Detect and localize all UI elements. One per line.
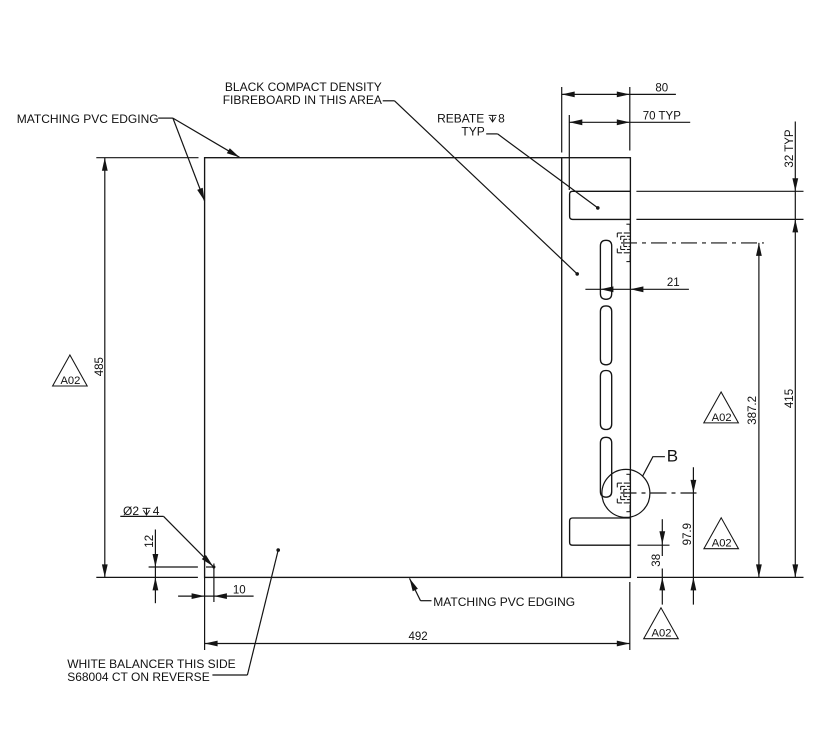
svg-text:12: 12 [144,535,156,548]
svg-text:415: 415 [784,389,796,408]
svg-text:MATCHING PVC EDGING: MATCHING PVC EDGING [17,112,159,126]
svg-text:387.2: 387.2 [747,396,759,425]
svg-text:A02: A02 [712,538,732,550]
svg-text:MATCHING PVC EDGING: MATCHING PVC EDGING [433,595,575,609]
svg-text:38: 38 [651,554,663,567]
svg-text:S68004 CT ON REVERSE: S68004 CT ON REVERSE [67,670,210,684]
svg-text:WHITE BALANCER THIS SIDE: WHITE BALANCER THIS SIDE [67,657,235,671]
svg-text:80: 80 [655,83,668,95]
svg-text:4: 4 [153,504,160,518]
svg-text:Ø2: Ø2 [123,504,139,518]
svg-text:TYP: TYP [461,125,484,139]
svg-text:97.9: 97.9 [682,523,694,545]
svg-text:FIBREBOARD IN THIS AREA: FIBREBOARD IN THIS AREA [223,93,382,107]
svg-text:21: 21 [667,277,680,289]
svg-text:A02: A02 [712,412,732,424]
svg-text:REBATE: REBATE [437,111,484,125]
svg-text:32 TYP: 32 TYP [784,129,796,167]
svg-text:10: 10 [233,584,246,596]
svg-text:485: 485 [94,357,106,376]
svg-text:70 TYP: 70 TYP [643,111,681,123]
svg-text:A02: A02 [60,375,80,387]
svg-text:B: B [667,447,678,466]
svg-text:A02: A02 [652,628,672,640]
svg-text:8: 8 [498,111,505,125]
svg-text:492: 492 [409,631,428,643]
